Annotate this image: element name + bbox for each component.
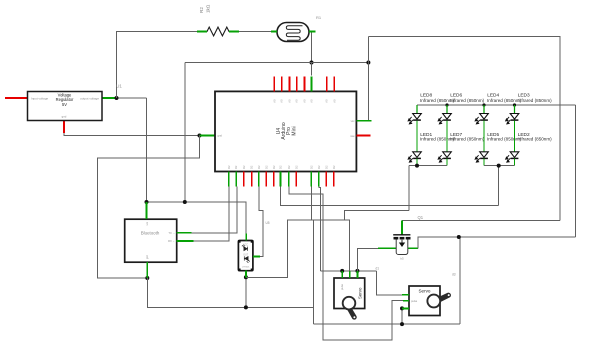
pin leg R1 right (green)	[309, 31, 316, 33]
arduino bottom pin 13 (red)	[325, 172, 327, 187]
svg-text:Bluetooth: Bluetooth	[141, 231, 160, 236]
junction servo2 gnd pin	[400, 306, 404, 310]
junction led rail	[513, 103, 516, 106]
svg-text:Infrared (850nm): Infrared (850nm)	[450, 98, 485, 103]
servo1 5v pin (green)	[356, 271, 358, 278]
junction led rail	[482, 103, 485, 106]
bluetooth module body	[125, 219, 177, 262]
arduino bottom pin 1 (green)	[228, 172, 230, 187]
svg-text:D2: D2	[227, 165, 231, 169]
wire regulator gnd to arduino	[64, 121, 200, 136]
arduino top pin 1 (red)	[273, 76, 275, 91]
wire node U1 up to R2	[117, 32, 198, 99]
svg-text:Infrared (850nm): Infrared (850nm)	[518, 98, 553, 103]
arduino top pin A6 (green)	[311, 76, 313, 91]
photoresistor R1 meander	[286, 26, 302, 40]
svg-text:U5: U5	[266, 221, 270, 225]
wire servo power from mosfet	[357, 248, 378, 271]
junction rail x185	[183, 200, 187, 204]
voltage regulator U1	[28, 92, 103, 121]
junction U5 gnd on bus	[244, 305, 248, 309]
arduino top pin 3 (red)	[288, 76, 290, 91]
svg-text:D2: D2	[324, 165, 328, 169]
IR sensor U5 glyphs	[238, 240, 253, 271]
node U1 junction	[115, 96, 119, 100]
wire R2 to R1 photoresistor	[239, 31, 271, 33]
arduino bottom pin 8 (green)	[280, 172, 282, 187]
servo1 pulse pin (green)	[349, 271, 351, 278]
arduino top pin 6 (red)	[326, 76, 328, 91]
wire arduino pin to servo1 pulse	[311, 187, 349, 272]
bluetooth gnd pin (green)	[146, 262, 148, 278]
wire R1 down to divider node	[311, 32, 313, 63]
mosfet Q1 top bar	[393, 234, 410, 236]
servo M2 body	[409, 286, 440, 316]
servo1 left pin (green)	[341, 271, 343, 278]
mosfet Q1 body	[396, 239, 408, 254]
wire vcc vertical x=146.5	[146, 98, 148, 202]
svg-text:D2: D2	[287, 165, 291, 169]
wire servo2 5v feed	[376, 271, 401, 295]
wire LED5 cathode stub	[483, 159, 485, 166]
svg-text:A0: A0	[280, 99, 284, 103]
svg-text:R2: R2	[199, 7, 204, 13]
arduino top pin 5 (red)	[304, 76, 306, 91]
svg-text:R1: R1	[316, 15, 322, 20]
svg-text:D2: D2	[294, 165, 298, 169]
wire servo2 gnd down	[401, 308, 403, 324]
wire mosfet to led rail	[418, 237, 575, 248]
svg-text:d3: d3	[452, 273, 456, 277]
bluetooth top pin (green)	[146, 202, 148, 219]
svg-text:D2: D2	[309, 165, 313, 169]
svg-text:A0: A0	[332, 99, 336, 103]
junction mosfet line to gnd rail	[457, 235, 461, 239]
junction U5 bottom	[244, 275, 248, 279]
svg-text:gnd: gnd	[62, 115, 67, 119]
mosfet Q1 arrow	[400, 240, 405, 246]
svg-text:A0: A0	[295, 99, 299, 103]
arduino bottom pin 9 (green)	[288, 172, 290, 187]
wire bluetooth RX to arduino	[194, 187, 230, 242]
svg-text:U1: U1	[116, 84, 122, 89]
pin leg regulator gnd (red)	[63, 121, 65, 134]
wire bottom rail up to mosfet line	[459, 237, 461, 324]
bluetooth TX pin (green)	[177, 232, 192, 234]
svg-text:A0: A0	[287, 99, 291, 103]
wire regulator output leg (green)	[102, 97, 117, 99]
wire gnd bottom rail	[314, 323, 460, 325]
LED LED5 (infrared)	[475, 152, 488, 162]
svg-text:D2: D2	[250, 165, 254, 169]
pin leg mosfet right (green)	[408, 247, 418, 249]
svg-text:Input voltage: Input voltage	[31, 96, 49, 100]
svg-text:1kΩ: 1kΩ	[206, 4, 211, 13]
svg-text:D2: D2	[242, 165, 246, 169]
led top rail	[417, 104, 576, 106]
pin leg R2 left (green)	[197, 31, 207, 33]
wire led top rail right vertical	[575, 105, 577, 237]
pin leg arduino left (green)	[200, 135, 216, 137]
wire LED7 cathode stub	[446, 159, 448, 166]
wire led pair1 up	[408, 166, 410, 211]
wire gate net down to arduino right pin	[367, 37, 369, 121]
wire led pair2 connector	[484, 165, 515, 167]
svg-text:Servo: Servo	[418, 288, 430, 293]
LED LED7 (infrared)	[438, 152, 451, 162]
wire gate horizontal y=220.5	[402, 220, 560, 222]
wire regulator input (red)	[5, 97, 28, 99]
arduino bottom pin 7 (red)	[273, 172, 275, 187]
LED LED2 (infrared)	[506, 152, 519, 162]
svg-text:Infrared (850nm): Infrared (850nm)	[487, 98, 522, 103]
LED LED6 (infrared)	[438, 105, 451, 124]
wire led pair2 up	[498, 166, 500, 206]
svg-text:D2: D2	[257, 165, 261, 169]
arduino bottom pin 11 (green)	[310, 172, 312, 187]
junction led pair1	[415, 164, 419, 168]
svg-text:Q1: Q1	[418, 215, 424, 220]
svg-text:gnd: gnd	[146, 254, 149, 259]
svg-text:Infrared (850nm): Infrared (850nm)	[487, 136, 522, 141]
wire divider node to arduino top pin	[311, 63, 313, 76]
mosfet Q1 pad 3	[406, 237, 411, 240]
pin leg mosfet gate (green)	[401, 221, 403, 235]
arduino bottom pin 14 (red)	[333, 172, 335, 187]
svg-text:5V: 5V	[62, 102, 67, 107]
junction led rail	[445, 103, 448, 106]
servo2 pulse pin (green)	[403, 300, 409, 302]
svg-text:D2: D2	[264, 165, 268, 169]
svg-text:LTR301: LTR301	[242, 267, 250, 269]
svg-text:D2: D2	[317, 165, 321, 169]
wire rail y202 to U5 top	[147, 202, 247, 234]
svg-text:b5: b5	[400, 257, 404, 261]
IR sensor U5 body	[238, 241, 253, 271]
svg-text:TX →: TX →	[168, 231, 175, 235]
svg-text:Servo: Servo	[358, 287, 363, 299]
arduino bottom pin 6 (red)	[265, 172, 267, 187]
junction arduino left pin node	[198, 134, 202, 138]
svg-text:OUT: OUT	[243, 254, 248, 256]
wire left vertical x=185 down to rail	[184, 63, 186, 203]
wire arduino pin to servo1 line	[319, 187, 321, 271]
wire LED1 cathode stub	[416, 159, 418, 166]
junction servo1 left pin	[340, 269, 344, 273]
resistor R2	[199, 27, 239, 36]
svg-text:D2: D2	[332, 165, 336, 169]
svg-text:gnd: gnd	[218, 134, 223, 138]
wire arduino pin to led pair2	[281, 187, 499, 206]
wire bluetooth TX to arduino	[192, 187, 237, 233]
wire vertical x=313.5	[313, 220, 315, 307]
LED LED1 (infrared)	[408, 152, 421, 162]
svg-text:RX ←: RX ←	[168, 239, 175, 243]
wire LED4 cathode to LED5 anode	[483, 120, 485, 152]
wire LED2 cathode stub	[514, 159, 516, 166]
servo M2 horn	[427, 293, 451, 308]
svg-text:A0: A0	[303, 99, 307, 103]
junction divider node	[310, 61, 314, 65]
svg-text:A0: A0	[310, 99, 314, 103]
svg-text:D2: D2	[279, 165, 283, 169]
servo M1 horn	[343, 297, 357, 320]
arduino right pin RAW (red)	[356, 135, 370, 137]
arduino bottom pin 10 (red)	[295, 172, 297, 187]
arduino bottom pin 4 (red)	[251, 172, 253, 187]
arduino bottom pin 3 (red)	[243, 172, 245, 187]
bluetooth RX pin (green)	[177, 240, 194, 242]
arduino bottom pin 5 (green)	[258, 172, 260, 187]
arduino top pin 7 (red)	[333, 76, 335, 91]
wire servo1 top line	[321, 270, 377, 272]
svg-text:output voltage: output voltage	[80, 96, 99, 100]
arduino bottom pin 12 (green)	[318, 172, 320, 187]
wire node U1 to vertical	[117, 97, 147, 99]
wire divider node to gate vertical	[185, 62, 368, 64]
svg-text:A0: A0	[272, 99, 276, 103]
servo M1 body	[334, 278, 365, 309]
LED LED8 (infrared)	[408, 105, 421, 124]
svg-text:A0: A0	[325, 99, 329, 103]
wire U5 bottom right branch up	[246, 220, 344, 277]
LED LED4 (infrared)	[475, 105, 488, 124]
svg-text:pulse: pulse	[411, 299, 418, 303]
pin leg R1 left (green)	[271, 31, 277, 33]
svg-text:pulse: pulse	[341, 283, 344, 289]
U5 bottom pin (green)	[245, 271, 247, 278]
arduino right pin VCC (green)	[356, 120, 371, 122]
junction at gate vertical	[366, 61, 370, 65]
svg-text:Infrared (850nm): Infrared (850nm)	[450, 136, 485, 141]
wire led pair1 feed	[344, 211, 409, 221]
svg-text:D2: D2	[234, 165, 238, 169]
junction bluetooth gnd	[145, 276, 149, 280]
wire LED8 cathode to LED1 anode	[416, 120, 418, 152]
pin leg mosfet left (green)	[378, 247, 396, 249]
LED LED3 (infrared)	[506, 105, 519, 124]
svg-text:d1: d1	[376, 267, 380, 271]
svg-text:raw: raw	[350, 134, 354, 138]
servo2 gnd pin (green)	[402, 307, 409, 309]
junction servo1 5v	[355, 269, 359, 273]
mosfet Q1 pad 2	[400, 237, 405, 240]
wire LED3 cathode to LED2 anode	[514, 120, 516, 152]
wire U5 out to arduino	[259, 187, 263, 257]
wire arduino pin to servo2 pulse	[289, 187, 403, 341]
wire LED6 cathode to LED7 anode	[446, 120, 448, 152]
servo2 5v pin (green)	[402, 294, 409, 296]
junction led pair2	[497, 164, 501, 168]
wire gnd bus bottom	[147, 278, 313, 324]
junction rail-bluetooth vcc	[145, 200, 149, 204]
wire U5 gnd down	[245, 277, 247, 307]
arduino bottom pin 2 (green)	[235, 172, 237, 187]
wire gnd branch left loop	[98, 136, 200, 279]
arduino U4 body	[215, 91, 356, 171]
wire top rail gate net	[368, 37, 560, 221]
wire led pair1 connector	[409, 165, 447, 167]
arduino top pin 2 (red)	[281, 76, 283, 91]
photoresistor R1	[277, 23, 309, 42]
pin leg R2 right (green)	[229, 31, 239, 33]
arduino top pin 4 (red)	[296, 76, 298, 91]
U5 right pin (green)	[253, 256, 260, 258]
junction servo2 gnd on rail	[400, 322, 404, 326]
svg-text:Infrared (850nm): Infrared (850nm)	[518, 136, 553, 141]
U5 top pin (green)	[245, 234, 247, 241]
mosfet Q1 pad 1	[394, 237, 399, 240]
svg-text:D2: D2	[272, 165, 276, 169]
